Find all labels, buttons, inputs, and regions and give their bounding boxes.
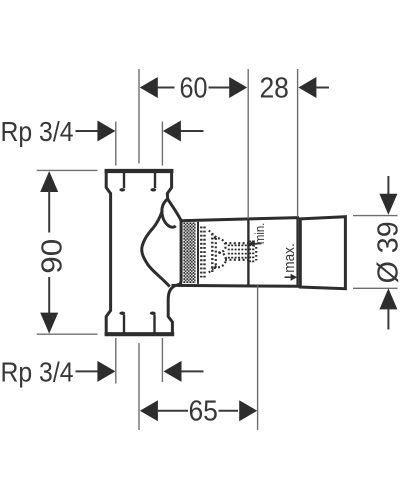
valve body top flange edge xyxy=(105,169,174,173)
cartridge left edge xyxy=(177,221,182,285)
thread mark top right xyxy=(150,173,156,192)
min position line xyxy=(247,219,249,286)
cartridge internals stem bottom dotted xyxy=(225,259,251,261)
dim 90 line lower xyxy=(48,277,50,315)
Rp 3/4 top right tail xyxy=(181,130,204,132)
cartridge internals bottom diagonal dotted xyxy=(209,265,217,273)
Rp 3/4 bottom leader xyxy=(76,370,99,372)
Rp 3/4 bottom arrow right xyxy=(164,361,182,382)
cartridge internals dotted B-profile xyxy=(214,238,226,268)
svg-text:28: 28 xyxy=(259,73,289,105)
cartridge bottom edge xyxy=(172,284,300,288)
svg-text:max.: max. xyxy=(282,243,298,273)
extension line 28 right xyxy=(297,69,299,217)
dim O39 bottom extension xyxy=(353,287,398,289)
valve body left wall xyxy=(106,170,110,336)
valve body bottom flange edge xyxy=(105,332,175,336)
dim 90 top extension xyxy=(37,169,98,171)
cartridge internals dotted column 1 xyxy=(200,227,202,278)
label max arrow xyxy=(291,274,298,281)
cap outline xyxy=(300,217,345,289)
label min tail xyxy=(255,243,262,245)
cartridge internals dotted column 2 xyxy=(203,227,205,278)
valve body right wall upper xyxy=(167,170,171,200)
thread mark top left xyxy=(119,173,125,192)
cartridge internals stem top dotted xyxy=(225,242,251,244)
dim 90 arrow up xyxy=(40,171,58,192)
Rp 3/4 top ext right xyxy=(161,122,163,166)
dim 65 line left xyxy=(158,410,189,412)
dim 65 ext right xyxy=(257,286,259,431)
svg-text:60: 60 xyxy=(180,73,208,105)
svg-text:65: 65 xyxy=(188,396,218,428)
label min arrow xyxy=(248,240,255,247)
dim 60 arrow right xyxy=(229,77,247,98)
valve body right wall lower xyxy=(168,286,175,334)
Rp 3/4 bottom right tail xyxy=(181,370,204,372)
dim 60 arrow left xyxy=(140,77,158,98)
Rp 3/4 top arrow right xyxy=(163,121,181,142)
svg-text:Ø 39: Ø 39 xyxy=(372,221,400,283)
dim 65 ext left xyxy=(138,343,140,430)
Rp 3/4 bottom ext left xyxy=(115,338,117,384)
Rp 3/4 bottom arrow left xyxy=(97,361,115,382)
Rp 3/4 bottom ext right xyxy=(161,338,163,382)
dim 65 arrow left xyxy=(140,400,158,421)
dim 28 outside arrow xyxy=(298,77,316,98)
dim 65 arrow right xyxy=(239,400,257,421)
cartridge thread hatch xyxy=(183,222,195,283)
dim 90 arrow down xyxy=(40,313,58,334)
Rp 3/4 top ext left xyxy=(115,122,117,166)
cartridge internals dotted B left column xyxy=(215,238,217,268)
cartridge top edge xyxy=(180,218,299,221)
cartridge internals stem fill dotted xyxy=(229,245,246,259)
Rp 3/4 top arrow left xyxy=(97,121,115,142)
branch transition teardrop curve xyxy=(162,199,176,227)
dim O39 arrow down xyxy=(379,194,397,215)
dim O39 line lower xyxy=(387,308,389,330)
dim 90 line upper xyxy=(48,190,50,233)
dim O39 top extension xyxy=(353,215,398,217)
branch transition beak outer curve xyxy=(168,199,182,221)
dim O39 arrow up xyxy=(379,288,397,309)
branch transition brace curve xyxy=(142,211,170,287)
dim 90 bottom extension xyxy=(37,333,98,335)
hatch boundary line xyxy=(197,222,199,284)
dim O39 line upper xyxy=(387,176,389,197)
dim 65 line right xyxy=(219,410,239,412)
dim 60 tail left xyxy=(158,87,175,89)
max position line xyxy=(296,217,298,286)
thread mark bottom left xyxy=(119,312,125,334)
extension line 60/28 shared xyxy=(247,69,249,219)
extension line 60 left xyxy=(138,69,140,164)
cartridge internals dotted column 3 xyxy=(211,234,213,273)
svg-text:Rp 3/4: Rp 3/4 xyxy=(1,116,74,147)
svg-text:90: 90 xyxy=(37,239,69,274)
dim 60 tail right xyxy=(209,87,230,89)
svg-text:Rp 3/4: Rp 3/4 xyxy=(1,356,74,387)
cartridge internals top diagonal dotted xyxy=(209,231,217,239)
dim 28 outside tail xyxy=(316,87,329,89)
thread mark bottom right xyxy=(150,312,156,334)
cartridge internals tip dotted columns xyxy=(250,241,256,263)
label max tail xyxy=(285,276,292,278)
Rp 3/4 top leader xyxy=(76,130,99,132)
